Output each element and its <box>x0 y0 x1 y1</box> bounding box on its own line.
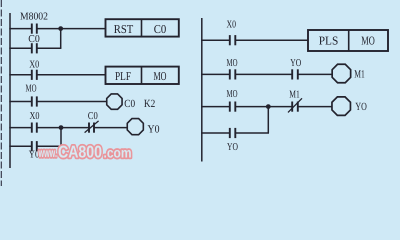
box PLF M0 <box>106 67 179 84</box>
wire branch C0 rung1 <box>9 47 31 49</box>
contact M8002 <box>32 24 37 34</box>
svg-text:YO: YO <box>355 101 366 113</box>
svg-text:Y0: Y0 <box>148 123 160 135</box>
svg-text:www.: www. <box>38 146 57 160</box>
contact X0 <box>32 70 37 80</box>
node junction rung4 <box>59 125 64 130</box>
watermark www.CA800.com <box>38 143 132 162</box>
node junction right rung3 <box>266 104 271 109</box>
scan edge line <box>0 0 2 186</box>
svg-text:K2: K2 <box>144 98 155 110</box>
svg-text:YO: YO <box>290 58 301 69</box>
wire rung3 left <box>9 101 31 103</box>
svg-text:PLF: PLF <box>115 69 131 83</box>
left power rail <box>9 13 11 168</box>
wire rung2 left <box>9 74 31 76</box>
coil M1 octagon <box>332 64 350 82</box>
wire rung4 left <box>9 127 31 129</box>
wire branch Y0 left <box>9 145 31 147</box>
box RST C0 <box>106 19 179 36</box>
svg-text:C0: C0 <box>28 34 40 45</box>
svg-text:MO: MO <box>26 84 37 95</box>
right power rail <box>201 18 203 162</box>
svg-text:M1: M1 <box>354 68 365 80</box>
svg-text:C0: C0 <box>154 22 167 36</box>
wire branch Y0 right <box>201 132 230 134</box>
svg-text:PLS: PLS <box>319 33 339 47</box>
contact M0 <box>32 96 37 106</box>
svg-text:C0: C0 <box>88 111 98 122</box>
coil Y0 octagon left <box>127 119 143 135</box>
svg-text:M1: M1 <box>289 90 300 101</box>
contact C0 NC <box>89 123 94 133</box>
contact X0 right <box>230 35 236 45</box>
coil C0 octagon <box>107 94 122 109</box>
contact Y0 branch right <box>230 128 236 138</box>
contact M0 right rung3 <box>230 102 236 112</box>
wire rung1 right <box>201 39 230 41</box>
svg-text:M8002: M8002 <box>20 11 48 22</box>
wire rung1 left <box>9 28 31 30</box>
svg-text:CA800: CA800 <box>58 143 102 162</box>
wire rung3 right <box>201 106 230 108</box>
svg-text:X0: X0 <box>29 59 39 70</box>
node junction rung1 <box>58 26 63 31</box>
svg-text:MO: MO <box>361 33 375 47</box>
contact X0 rung4 <box>32 123 37 133</box>
svg-text:MO: MO <box>227 89 238 100</box>
box PLS M0 <box>308 30 388 51</box>
contact C0 <box>32 43 37 53</box>
coil Y0 octagon right <box>332 97 350 115</box>
svg-text:MO: MO <box>154 69 167 83</box>
svg-text:X0: X0 <box>30 111 40 122</box>
contact M1 NC <box>292 102 298 112</box>
svg-text:.com: .com <box>104 145 132 161</box>
svg-text:YO: YO <box>227 142 238 153</box>
svg-text:MO: MO <box>227 58 238 69</box>
contact Y0 branch <box>32 141 37 151</box>
contact M0 right rung2 <box>230 69 236 79</box>
svg-text:C0: C0 <box>124 98 135 110</box>
svg-text:X0: X0 <box>227 19 237 30</box>
wire rung2 right <box>201 73 230 75</box>
svg-text:RST: RST <box>114 22 134 36</box>
contact Y0 right rung2 <box>292 69 298 79</box>
